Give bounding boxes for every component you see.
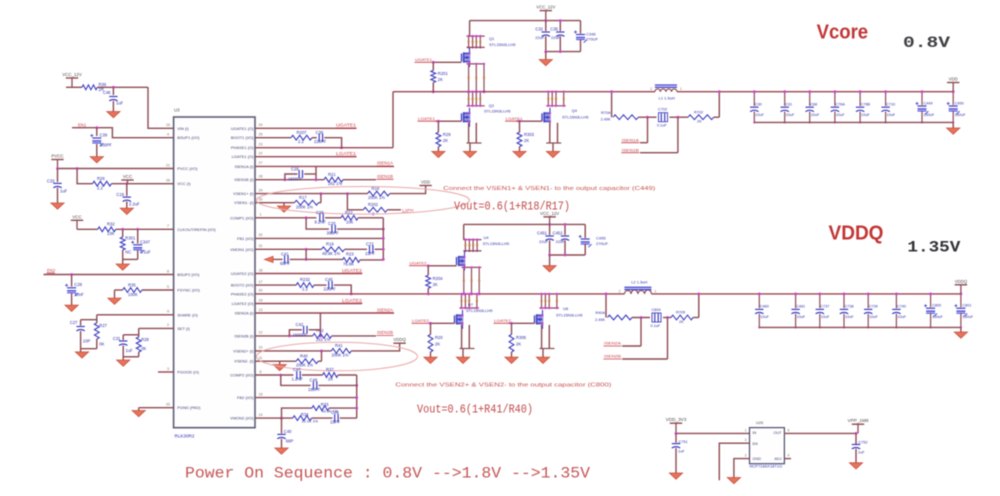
- wire VMON2 row: [255, 417, 293, 419]
- svg-text:11: 11: [259, 356, 263, 360]
- svg-text:NC: NC: [125, 250, 131, 255]
- wire VCC_12V top rail ch1: [470, 19, 581, 22]
- wire R23 to node: [360, 258, 385, 261]
- svg-text:C39: C39: [100, 132, 108, 137]
- power flag VCC (REFIN): [71, 214, 83, 229]
- svg-text:C19: C19: [116, 192, 124, 197]
- svg-text:U4: U4: [484, 235, 490, 240]
- svg-text:2K: 2K: [328, 377, 333, 382]
- ground (U8 source): [536, 357, 549, 363]
- wire EN1 to BSUP1: [72, 128, 174, 138]
- svg-text:SET (I): SET (I): [177, 326, 190, 331]
- resistor R21 261: [324, 172, 343, 186]
- svg-text:R40A: R40A: [596, 311, 606, 315]
- svg-text:VMON1 (I/O): VMON1 (I/O): [230, 247, 254, 252]
- svg-text:C40: C40: [284, 429, 292, 434]
- wire C41 to R23: [290, 249, 343, 260]
- off-page arrow (C41): [264, 256, 273, 262]
- svg-text:NCP718AX18T1G: NCP718AX18T1G: [750, 464, 783, 469]
- svg-text:COMP1 (I/O): COMP1 (I/O): [230, 215, 254, 220]
- svg-text:VDD: VDD: [421, 180, 430, 185]
- wire ISEN1A-ISEN1B stub: [315, 166, 317, 179]
- svg-text:LGATE2: LGATE2: [342, 298, 363, 303]
- svg-text:16: 16: [166, 123, 170, 127]
- svg-text:C46: C46: [103, 90, 111, 95]
- svg-text:ISEN1B: ISEN1B: [377, 174, 393, 179]
- svg-text:C737: C737: [820, 305, 829, 309]
- wire PGND: [139, 408, 174, 411]
- svg-text:1: 1: [680, 87, 682, 91]
- resistor R33 49.9K: [312, 402, 339, 413]
- wire ch1 input cap bus: [544, 50, 580, 59]
- wire LDO GND: [734, 459, 750, 478]
- svg-text:C800: C800: [932, 304, 941, 308]
- resistor R42 261: [313, 328, 332, 342]
- wire R26 to VCC pin: [111, 182, 173, 185]
- svg-text:PVCC (I/O): PVCC (I/O): [177, 166, 198, 171]
- resistor R18 200K: [368, 186, 390, 200]
- resistor R303 2K: [517, 121, 535, 151]
- ground (PGND): [132, 411, 145, 417]
- wire R33 to node: [329, 407, 358, 410]
- resistor R306 2K: [509, 323, 527, 357]
- svg-text:390PF: 390PF: [327, 231, 340, 236]
- svg-text:10uF: 10uF: [755, 113, 764, 117]
- wire R207-C38: [312, 137, 317, 139]
- svg-text:23: 23: [259, 143, 263, 147]
- svg-text:VSEN2- (I): VSEN2- (I): [234, 359, 254, 364]
- capacitor C32 22uF: [535, 21, 550, 52]
- wire C804-R705: [663, 316, 671, 319]
- wire R18 to VDD: [390, 186, 426, 194]
- transistor Q4: [542, 108, 589, 127]
- capacitor C452 22uF: [553, 223, 570, 255]
- resistor R37: [323, 367, 338, 381]
- wire ISEN2B link: [622, 318, 667, 360]
- power flag VDD_3V3: [666, 417, 687, 433]
- svg-text:R232: R232: [300, 277, 311, 282]
- svg-text:19: 19: [259, 298, 263, 302]
- svg-text:15PF: 15PF: [330, 420, 340, 425]
- svg-text:2: 2: [167, 323, 169, 327]
- svg-text:2K: 2K: [435, 342, 440, 347]
- svg-text:10K: 10K: [346, 219, 354, 224]
- resistor R40A 2.49K: [595, 311, 632, 322]
- power flag VCC (decoupling): [121, 174, 133, 184]
- svg-text:R41: R41: [335, 343, 343, 348]
- capacitor C29: [65, 275, 84, 306]
- svg-text:C72: C72: [366, 241, 374, 246]
- resistor R70A 2.49K: [601, 111, 639, 122]
- capacitor C35 22uF: [550, 19, 564, 51]
- svg-text:R705: R705: [676, 311, 685, 315]
- net label LGATE2 (U7 gate): [412, 318, 430, 323]
- capacitor C45 220PF: [324, 277, 337, 291]
- svg-text:VCC (I): VCC (I): [177, 181, 191, 186]
- svg-text:330uF: 330uF: [924, 113, 935, 117]
- wire LGATE1 row: [255, 156, 357, 158]
- node VIN junction: [112, 86, 115, 89]
- resistor R36: [82, 82, 107, 92]
- svg-text:330uF: 330uF: [955, 113, 966, 117]
- svg-text:2K: 2K: [438, 77, 443, 82]
- svg-text:Power On Sequence : 0.8V -->1.: Power On Sequence : 0.8V -->1.8V -->1.35…: [185, 465, 591, 483]
- transistor U7 source loop: [460, 325, 475, 357]
- svg-text:UGATE2 (O): UGATE2 (O): [231, 271, 254, 276]
- svg-text:Q1: Q1: [489, 36, 495, 41]
- svg-text:2K: 2K: [524, 138, 529, 143]
- resistor R26 2.2: [93, 176, 112, 191]
- resistor R34 22.1K: [293, 412, 319, 423]
- wire ch2 input cap bus: [548, 254, 585, 266]
- wire UGATE1 gate: [432, 61, 462, 64]
- svg-text:PHASE1 (O): PHASE1 (O): [231, 145, 254, 150]
- capacitor C40 68PF: [277, 418, 293, 448]
- wire set filter gnd: [123, 357, 139, 360]
- wire COMP1 parallel leg: [306, 218, 329, 229]
- svg-text:26: 26: [166, 179, 170, 183]
- svg-text:0K: 0K: [99, 342, 104, 347]
- svg-text:C28: C28: [291, 166, 299, 171]
- capacitor C752 1uF: [852, 433, 868, 462]
- op-amp U26 LDO box: [750, 420, 785, 464]
- wire LGATE1 Q4 gate: [517, 120, 543, 123]
- svg-text:R20: R20: [435, 335, 443, 340]
- svg-text:32: 32: [259, 233, 263, 237]
- svg-text:10uF: 10uF: [821, 315, 830, 319]
- wire PGOOD stub: [158, 371, 174, 373]
- svg-text:76.8K: 76.8K: [343, 261, 354, 266]
- svg-text:R27: R27: [99, 323, 107, 328]
- svg-text:261 1%: 261 1%: [328, 181, 342, 186]
- svg-text:10nF: 10nF: [74, 292, 84, 297]
- ground (ch1 output): [947, 128, 960, 134]
- capacitor C48 180PF: [308, 378, 321, 392]
- wire SET row: [123, 328, 173, 334]
- capacitor C347 0.1uF: [131, 229, 151, 259]
- svg-text:L1PH: L1PH: [402, 207, 413, 212]
- svg-text:14: 14: [259, 413, 263, 417]
- wire R19-C72: [345, 248, 367, 250]
- svg-text:LGATE2: LGATE2: [412, 318, 430, 323]
- node EN1 junction: [95, 126, 98, 129]
- svg-text:68PF: 68PF: [280, 261, 290, 266]
- ground (C40): [275, 448, 288, 454]
- net label LGATE1 (pin): [336, 151, 357, 156]
- note Vout formula ch2: [417, 403, 533, 416]
- svg-text:C45: C45: [325, 277, 333, 282]
- power flag PVCC: [51, 154, 63, 169]
- svg-text:U3: U3: [174, 108, 180, 113]
- svg-text:EN: EN: [753, 442, 759, 446]
- svg-text:R28: R28: [141, 337, 149, 342]
- wire ch1 cap bank gnd bus: [754, 121, 953, 123]
- net label ISEN1B (pin): [377, 174, 394, 179]
- svg-text:24: 24: [259, 123, 263, 127]
- svg-text:STL15N3LLH5: STL15N3LLH5: [483, 241, 510, 246]
- wire CLKOUT row: [77, 228, 174, 231]
- svg-text:ISEN1A: ISEN1A: [622, 137, 639, 142]
- capacitor C804 0.1uF: [651, 308, 662, 328]
- svg-text:Vout=0.6(1+R18/R17): Vout=0.6(1+R18/R17): [454, 201, 570, 214]
- svg-text:2: 2: [650, 87, 652, 91]
- ground (C752): [849, 463, 862, 469]
- ground (ch2 output): [954, 332, 967, 338]
- svg-text:22: 22: [259, 152, 263, 156]
- ground (Q4 source): [546, 151, 559, 157]
- wire PVCC row: [56, 167, 174, 170]
- svg-text:R306: R306: [516, 335, 527, 340]
- capacitor bank ch1 (C30/C31/C68/C76A/C76B/C710 10uF): [750, 90, 896, 123]
- capacitor C49 15PF: [330, 410, 340, 424]
- wire COMP2 parallel leg: [281, 375, 311, 385]
- svg-text:UGATE2: UGATE2: [342, 268, 363, 273]
- note connect VSEN1: [443, 186, 655, 192]
- svg-text:R301: R301: [125, 236, 136, 241]
- svg-text:200K 1%: 200K 1%: [368, 195, 385, 200]
- svg-text:22.1K 1%: 22.1K 1%: [302, 419, 319, 423]
- svg-text:330uF: 330uF: [932, 315, 943, 319]
- power flag VDD (Vcore output): [947, 77, 959, 92]
- svg-text:2K: 2K: [697, 120, 702, 124]
- resistor R40 200K: [296, 353, 318, 367]
- svg-text:FSYNC (I/O): FSYNC (I/O): [177, 288, 200, 293]
- power flag VPP_1M8: [847, 418, 868, 433]
- svg-text:C76A: C76A: [835, 102, 845, 106]
- capacitor C751 1uF: [672, 433, 688, 473]
- wire C72 to node: [375, 248, 385, 251]
- svg-text:R34: R34: [301, 412, 309, 417]
- wire vdd gnd stem: [952, 122, 954, 128]
- wire C25 to comp node: [337, 228, 385, 231]
- svg-text:22uF: 22uF: [556, 239, 566, 244]
- svg-text:LGATE2: LGATE2: [494, 318, 512, 323]
- svg-text:U26: U26: [756, 420, 763, 425]
- svg-text:OUT: OUT: [773, 431, 782, 435]
- wire sense2 left drop: [605, 293, 608, 318]
- ground (R306): [505, 357, 518, 363]
- svg-text:1: 1: [655, 289, 657, 293]
- svg-text:LGATE2 (O): LGATE2 (O): [232, 301, 255, 306]
- svg-text:1.2NF: 1.2NF: [292, 377, 304, 382]
- svg-text:270UF: 270UF: [586, 37, 599, 42]
- wire R40A-C804: [632, 316, 650, 319]
- ground (R35): [108, 298, 121, 304]
- capacitor C449/C450 330uF (bulk): [916, 90, 967, 123]
- svg-text:VCC: VCC: [72, 214, 81, 219]
- svg-text:0K: 0K: [141, 346, 146, 351]
- note connect VSEN2: [395, 382, 611, 388]
- capacitor C42 1500PF: [289, 322, 320, 337]
- wire R34-C49: [312, 417, 333, 419]
- transistor Q2 source loop: [467, 123, 482, 152]
- capacitor C451 22uF: [537, 224, 554, 255]
- svg-text:2.2uF: 2.2uF: [129, 202, 140, 207]
- svg-text:R207: R207: [297, 130, 308, 135]
- svg-text:BOOT1 (I/O): BOOT1 (I/O): [231, 135, 254, 140]
- resistor R17 200K: [294, 195, 318, 209]
- svg-text:ISEN2B: ISEN2B: [604, 354, 621, 359]
- wire UGATE1 row: [255, 127, 357, 129]
- wire LGATE2 U7 gate: [429, 322, 455, 325]
- LDO pin numbers: [745, 428, 790, 457]
- wire LDO ADJ stub: [784, 458, 791, 460]
- wire C48 to comp node: [319, 384, 359, 387]
- svg-text:22uF: 22uF: [535, 35, 545, 40]
- svg-text:10uF: 10uF: [897, 315, 906, 319]
- svg-text:C452: C452: [553, 231, 564, 236]
- net label ISEN1B (sense): [621, 147, 639, 152]
- svg-text:261 1%: 261 1%: [316, 337, 330, 342]
- transistor Q4 drain stubs: [546, 91, 566, 108]
- svg-text:ISEN1B (I): ISEN1B (I): [234, 177, 254, 182]
- svg-text:FB1 (I/O): FB1 (I/O): [237, 236, 254, 241]
- svg-text:Vout=0.6(1+R41/R40): Vout=0.6(1+R41/R40): [417, 403, 533, 416]
- wire vddq gnd stem: [960, 327, 962, 332]
- wire ISEN1B row: [255, 178, 376, 181]
- svg-text:270UF: 270UF: [596, 241, 609, 246]
- wire R40 to VSEN2+ node: [318, 351, 321, 361]
- capacitor C19 2.2uF: [116, 184, 140, 209]
- svg-text:C68: C68: [810, 102, 817, 106]
- IC U3 right pin numbers: [259, 123, 263, 417]
- wire ISEN2A-ISEN2B stub: [319, 313, 321, 336]
- wire phase1 rail: [393, 92, 655, 148]
- svg-text:C710: C710: [886, 102, 895, 106]
- wire COMP2 row: [255, 374, 293, 377]
- transistor U4 source stubs: [462, 266, 482, 295]
- svg-text:R702: R702: [694, 110, 703, 114]
- title VDDQ: [829, 223, 884, 245]
- svg-text:2K: 2K: [443, 138, 448, 143]
- svg-text:C31: C31: [113, 336, 121, 341]
- svg-text:C461: C461: [796, 305, 805, 309]
- wire comp2 vertical: [356, 375, 358, 418]
- IC part number: [175, 434, 195, 439]
- ground (C46): [107, 112, 120, 118]
- svg-text:SHARE (O): SHARE (O): [177, 312, 198, 317]
- resistor R19 49.9K: [322, 241, 345, 255]
- svg-text:C450: C450: [955, 101, 964, 105]
- svg-text:4: 4: [167, 133, 169, 137]
- net label UGATE2 (pin): [342, 268, 363, 273]
- wire FB1 row: [255, 237, 385, 240]
- capacitor C47 1.2NF: [292, 367, 304, 381]
- svg-text:2K: 2K: [433, 282, 438, 287]
- svg-text:6: 6: [260, 370, 262, 374]
- svg-text:2.49K: 2.49K: [595, 318, 605, 322]
- svg-text:VDDQ: VDDQ: [955, 279, 968, 284]
- svg-text:68P: 68P: [286, 438, 294, 443]
- resistor R702 2K: [688, 110, 714, 123]
- wire sense1 left drop: [610, 90, 613, 117]
- svg-text:2.2: 2.2: [302, 287, 308, 292]
- svg-text:U7: U7: [468, 302, 474, 307]
- power flag VCC_12V (controller input): [62, 72, 82, 87]
- svg-text:PGND (PAD): PGND (PAD): [177, 405, 201, 410]
- ground (REFIN filter): [116, 264, 129, 270]
- capacitor C38 220PF: [314, 130, 327, 144]
- ground (U7 source): [456, 357, 469, 363]
- svg-text:27: 27: [259, 161, 263, 165]
- wire R17 to VSEN1+ node: [319, 194, 321, 203]
- svg-text:C455: C455: [596, 236, 606, 241]
- resistor R20 2K: [428, 323, 443, 357]
- wire arrow to C41: [273, 258, 283, 260]
- svg-text:R37: R37: [326, 367, 334, 372]
- inductor L1 1.5uH: [650, 85, 682, 101]
- svg-text:200K 1%: 200K 1%: [332, 352, 349, 357]
- svg-text:R22: R22: [345, 210, 353, 215]
- svg-text:2.2: 2.2: [97, 186, 103, 191]
- svg-text:ISEN1A: ISEN1A: [377, 161, 393, 166]
- transistor Q2 drain stubs: [467, 91, 485, 108]
- capacitor C46 1uF: [103, 87, 124, 111]
- svg-text:8: 8: [167, 269, 169, 273]
- svg-text:LGATE1: LGATE1: [506, 116, 524, 121]
- capacitor C72 15PF: [365, 241, 375, 255]
- svg-text:LGATE1: LGATE1: [418, 116, 436, 121]
- svg-text:UGATE1 (O): UGATE1 (O): [231, 126, 254, 131]
- svg-text:ISEN2A (I): ISEN2A (I): [235, 311, 255, 316]
- power flag VCC_12V (ch1 stage): [536, 5, 555, 21]
- net label UGATE2 (gate): [409, 260, 427, 265]
- svg-text:180PF: 180PF: [308, 387, 321, 392]
- svg-text:STL15N3LLH5: STL15N3LLH5: [466, 308, 493, 313]
- wire PHASE1 row: [255, 147, 393, 149]
- transistor Q1: [462, 36, 517, 67]
- ground (C29): [65, 305, 78, 311]
- LDO part number: [750, 464, 783, 469]
- capacitor C31: [113, 335, 133, 357]
- wire ISEN1B link: [640, 117, 678, 153]
- capacitor C800/C801 330uF (bulk): [924, 293, 974, 329]
- svg-text:1: 1: [745, 428, 747, 432]
- transistor U7 drain stubs: [459, 293, 479, 310]
- ground (C39): [90, 157, 103, 163]
- svg-text:Vcore: Vcore: [817, 21, 869, 43]
- net label UGATE1 (pin): [336, 123, 357, 128]
- svg-text:10uF: 10uF: [797, 315, 806, 319]
- svg-text:LGATE1: LGATE1: [336, 151, 357, 156]
- wire UGATE2 gate: [427, 264, 457, 267]
- svg-text:18: 18: [259, 268, 263, 272]
- wire VMON2 subrow: [280, 408, 312, 419]
- wire ISEN1A row: [255, 165, 394, 167]
- svg-text:R303: R303: [524, 132, 535, 137]
- svg-text:C25: C25: [328, 221, 336, 226]
- svg-text:R201: R201: [438, 71, 449, 76]
- wire LGATE2 U8 gate: [509, 322, 535, 325]
- svg-text:C30: C30: [755, 102, 762, 106]
- svg-text:2.49K: 2.49K: [601, 118, 611, 122]
- wire sense2 right drop: [693, 293, 700, 318]
- svg-text:VSEN2+ (I): VSEN2+ (I): [233, 348, 254, 353]
- wire PHASE2 row (rail): [255, 293, 624, 295]
- wire ISEN2B row: [255, 335, 376, 338]
- capacitor C39 100PF: [90, 128, 112, 157]
- net label UGATE1 (gate): [415, 57, 433, 62]
- svg-text:25: 25: [259, 133, 263, 137]
- svg-text:ADJ: ADJ: [774, 457, 781, 461]
- svg-text:17: 17: [259, 280, 263, 284]
- svg-text:Connect the VSEN2+ & VSEN2- to: Connect the VSEN2+ & VSEN2- to the outpu…: [395, 382, 611, 388]
- net label ISEN2A (sense): [604, 341, 622, 346]
- wire BOOT1 row: [255, 137, 291, 139]
- ground (LDO): [727, 478, 740, 484]
- svg-text:2K: 2K: [516, 342, 521, 347]
- svg-text:3: 3: [745, 438, 747, 442]
